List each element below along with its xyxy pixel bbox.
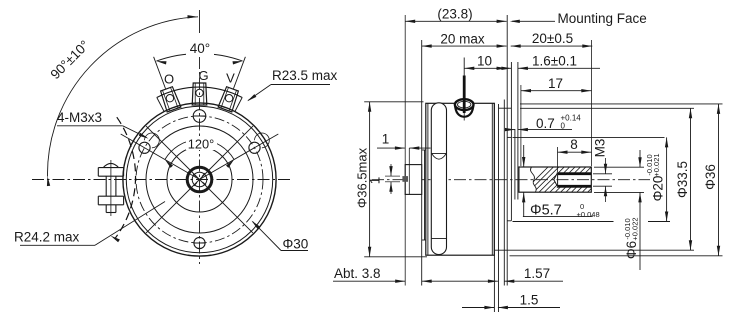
terminal pin xyxy=(463,76,466,114)
radial lines to screw holes xyxy=(121,134,279,180)
centerline horizontal (front view) xyxy=(32,179,292,181)
motor rim inner circle xyxy=(126,106,272,252)
ext Phi6 bottom xyxy=(594,191,644,193)
shaft base ext line xyxy=(520,85,522,166)
extension line top (front view) xyxy=(199,10,201,33)
drill cone xyxy=(554,173,558,187)
svg-text:O: O xyxy=(164,72,174,87)
mounting face leader xyxy=(512,20,555,22)
svg-text:+0.021: +0.021 xyxy=(652,153,661,176)
label 120deg xyxy=(186,137,217,150)
dim Phi20 xyxy=(666,137,668,221)
dim arc 120deg xyxy=(165,140,234,160)
shaft hatch ticks xyxy=(193,173,206,186)
motor body outline xyxy=(426,103,495,255)
svg-text:V: V xyxy=(226,71,235,86)
svg-text:Φ33.5: Φ33.5 xyxy=(675,161,690,198)
dim 10 line xyxy=(464,67,506,69)
dim Phi5.7 underline xyxy=(523,216,593,218)
ext 36.5 bottom xyxy=(364,256,427,258)
svg-text:+0.022: +0.022 xyxy=(631,217,640,240)
dim M3 arrows xyxy=(605,158,607,174)
svg-text:R23.5 max: R23.5 max xyxy=(272,68,338,83)
washer rear line xyxy=(517,62,519,200)
svg-text:Φ36: Φ36 xyxy=(703,164,718,190)
R24.2 swing arc dashed xyxy=(115,117,136,239)
motor outer circle xyxy=(123,103,276,256)
flange line 4 xyxy=(503,100,505,286)
terminal band arc xyxy=(157,87,242,97)
svg-text:20 max: 20 max xyxy=(440,32,485,47)
ext Phi6 top xyxy=(594,166,644,168)
terminal pin extension xyxy=(463,58,465,76)
leader arrow 4-M3x3 xyxy=(139,133,149,139)
ext Phi20 bottom a xyxy=(513,221,614,223)
mounting face line xyxy=(506,15,508,286)
dim arc 40deg xyxy=(156,53,242,61)
ext Phi20 top xyxy=(513,136,665,138)
svg-text:(23.8): (23.8) xyxy=(437,7,472,22)
ext top body edge xyxy=(474,103,495,105)
dim Phi33.5 xyxy=(690,108,692,250)
dim 1.5 line xyxy=(462,307,494,309)
svg-text:1: 1 xyxy=(382,132,390,147)
dim Phi36.5 line xyxy=(369,102,371,257)
leader arrow R24.2 xyxy=(111,236,120,243)
centerline vertical (front view) xyxy=(199,57,201,264)
svg-text:20±0.5: 20±0.5 xyxy=(532,31,573,46)
terminal block G xyxy=(192,83,207,105)
svg-text:Φ30: Φ30 xyxy=(283,237,309,252)
diagonal spokes xyxy=(146,126,253,233)
terminal band right end xyxy=(235,97,242,111)
dim 23.8 arrows xyxy=(405,20,415,23)
pilot boss face xyxy=(510,62,512,221)
svg-text:+0.048: +0.048 xyxy=(577,210,600,219)
dim 1.57 line xyxy=(445,280,498,282)
svg-text:1.6±0.1: 1.6±0.1 xyxy=(532,54,577,69)
leader 4-M3x3 xyxy=(57,125,123,127)
ext 20pm right xyxy=(591,40,593,166)
dim 1h xyxy=(377,147,405,149)
dim arrow 120 left xyxy=(165,160,173,168)
ext 8 dim xyxy=(557,147,559,172)
flange line 1 xyxy=(491,103,493,255)
rear cap left ext line xyxy=(404,15,406,286)
bolt circle PCD dashed xyxy=(136,116,263,243)
svg-text:8: 8 xyxy=(570,137,578,152)
ext line 40 right xyxy=(233,57,245,89)
label 40deg xyxy=(186,39,214,55)
body rear inner line xyxy=(427,103,429,255)
dim Phi5.7 leader xyxy=(523,192,525,216)
flange line 3 xyxy=(498,104,500,312)
leader Phi30 xyxy=(253,222,282,251)
terminal block O xyxy=(161,87,181,112)
dim Phi6 xyxy=(639,150,641,167)
svg-text:17: 17 xyxy=(548,76,563,91)
dim 10 arrows xyxy=(464,67,474,70)
dim 8 arrows xyxy=(558,151,568,154)
shaft outline xyxy=(519,167,591,192)
ext Phi36 bottom xyxy=(510,255,723,257)
leader arrow Phi30 xyxy=(252,221,260,229)
dim 1v xyxy=(390,164,392,176)
section break wavy line xyxy=(530,167,536,192)
rear cap step line xyxy=(408,148,410,194)
brush tube joint chord xyxy=(432,153,447,155)
terminal grommet skirt xyxy=(455,105,473,117)
dim 20pm line xyxy=(511,45,593,47)
terminal grommet inner xyxy=(458,101,471,108)
ext Phi33.5 bottom xyxy=(494,249,694,251)
rear cap xyxy=(405,165,422,195)
brush tube joint arc xyxy=(432,154,446,159)
svg-text:M3: M3 xyxy=(593,139,608,158)
tapped hole outline thick xyxy=(558,173,592,175)
svg-text:0: 0 xyxy=(561,122,566,131)
screw hole bottom xyxy=(194,237,205,248)
ext M3 bottom xyxy=(593,185,612,187)
terminal grommet xyxy=(455,99,474,110)
svg-text:Mounting Face: Mounting Face xyxy=(558,11,647,26)
dim 23.8 line xyxy=(405,20,506,22)
screw hole top xyxy=(193,110,206,123)
ext 36.5 top xyxy=(364,101,423,103)
ext Phi33.5 top xyxy=(520,107,694,109)
leader R23.5 xyxy=(248,85,271,101)
svg-text:120°: 120° xyxy=(188,137,214,152)
dim 20max arrows xyxy=(422,44,432,47)
svg-text:1.57: 1.57 xyxy=(524,266,550,281)
dim arrow 90deg top xyxy=(188,15,198,18)
svg-text:R24.2 max: R24.2 max xyxy=(14,230,80,245)
inner hub circle xyxy=(167,147,232,212)
brush shunt block xyxy=(402,176,408,182)
pilot boss bottom xyxy=(507,220,511,222)
leader arrow R23.5 xyxy=(247,94,256,101)
dim 20pm arrows xyxy=(511,44,521,47)
dim arrow 120 right xyxy=(226,160,234,168)
dim Abt3.8 line xyxy=(333,280,405,282)
dim 17 arrows xyxy=(521,89,531,92)
shaft circle xyxy=(192,172,207,187)
brush tube lower chord xyxy=(432,238,447,240)
dim 17 line xyxy=(521,90,591,92)
dim arc 90deg xyxy=(47,17,198,177)
svg-text:Abt. 3.8: Abt. 3.8 xyxy=(334,266,381,281)
svg-text:Φ5.7: Φ5.7 xyxy=(530,203,562,219)
flange line 2 xyxy=(493,103,495,312)
leader R24.2 xyxy=(95,202,165,246)
shaft boss thick ring xyxy=(187,167,212,192)
washer front line xyxy=(514,129,516,200)
mounting hole M3 upper-right xyxy=(249,133,269,153)
mounting hole M3 upper-left xyxy=(139,133,159,153)
dim 0.7 arrows xyxy=(505,129,515,131)
centerline horizontal (side view) xyxy=(372,179,650,181)
tapped hole thin lines xyxy=(557,172,592,174)
svg-text:40°: 40° xyxy=(190,41,210,56)
svg-text:Φ6: Φ6 xyxy=(624,241,639,259)
pilot boss top xyxy=(507,136,511,138)
dim arrow 90deg bottom xyxy=(47,176,50,186)
dim Phi36 xyxy=(718,104,720,256)
dim arrow 40 left xyxy=(156,61,166,64)
front hub circle xyxy=(146,126,253,233)
svg-text:1.5: 1.5 xyxy=(520,293,539,308)
svg-text:G: G xyxy=(198,68,208,83)
terminal band left end xyxy=(157,97,164,111)
dim 20max line xyxy=(422,45,507,47)
dim 1.6 arrows xyxy=(496,67,511,69)
ext Phi36 top xyxy=(520,103,723,105)
svg-text:Φ20: Φ20 xyxy=(651,176,666,202)
dim arrow 40 right xyxy=(233,61,243,64)
dim 8 line xyxy=(558,151,592,153)
svg-text:Φ36.5max: Φ36.5max xyxy=(355,147,370,208)
svg-text:0.7: 0.7 xyxy=(536,116,555,131)
ext line left of centerline xyxy=(31,179,33,181)
pilot top edge xyxy=(499,107,512,109)
brush housing bump xyxy=(98,160,123,216)
ext Phi20 bottom b xyxy=(648,221,670,223)
terminal block V xyxy=(218,87,238,112)
ext line 40 left xyxy=(154,57,166,89)
ext M3 top xyxy=(593,173,612,175)
svg-text:4-M3x3: 4-M3x3 xyxy=(57,110,102,125)
brush tube xyxy=(431,103,446,255)
svg-text:10: 10 xyxy=(477,54,492,69)
rear cover plate xyxy=(421,40,423,286)
